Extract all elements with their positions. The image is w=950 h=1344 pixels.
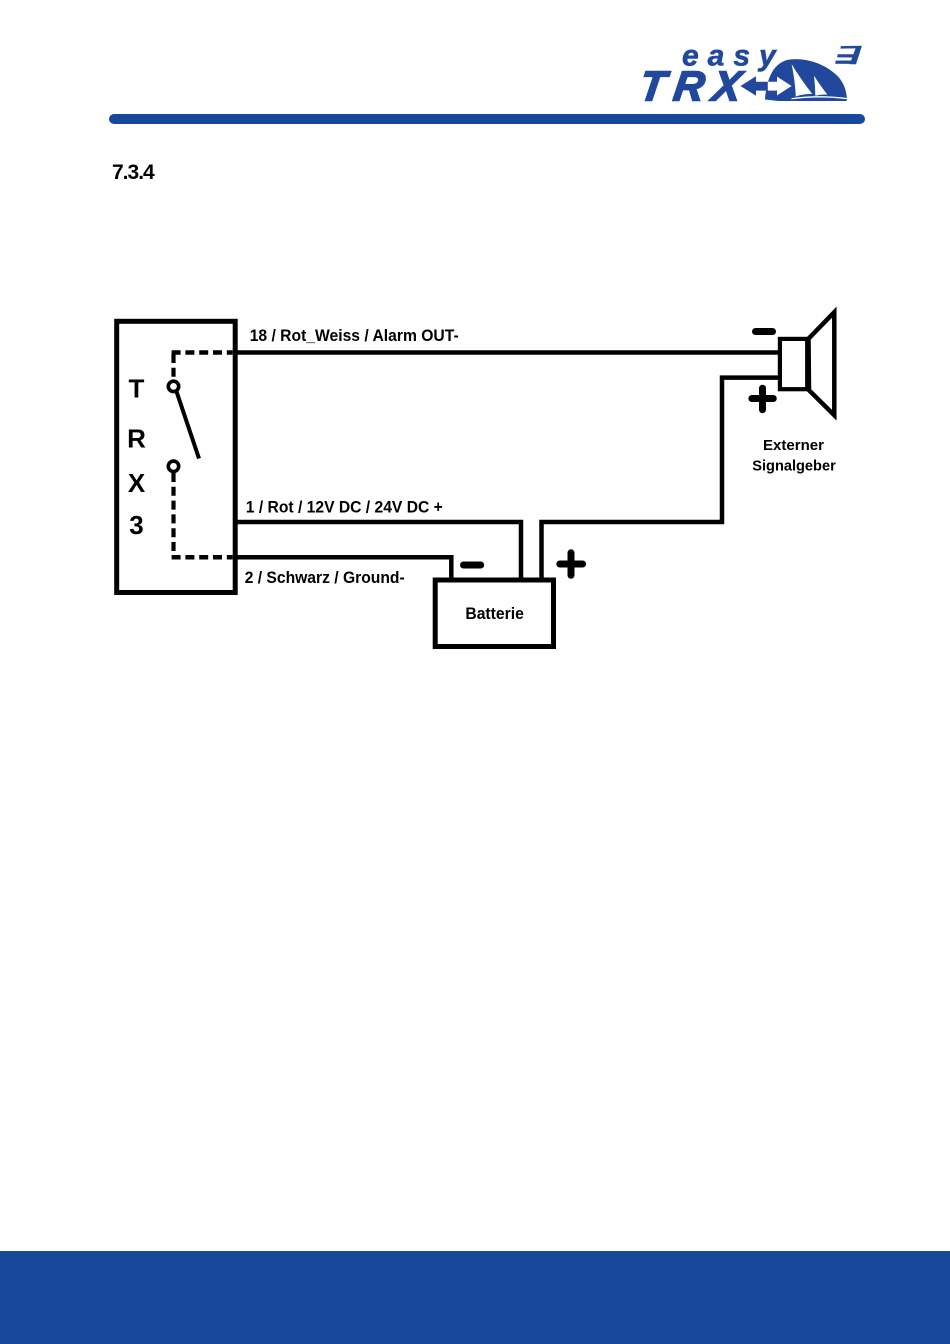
svg-text:R: R — [127, 423, 146, 453]
battery B1 — [435, 580, 553, 647]
logo left blue arrow — [741, 76, 769, 95]
battery minus sign — [464, 562, 481, 569]
relay dashed outline left upper — [171, 354, 175, 380]
svg-text:Signalgeber: Signalgeber — [752, 458, 836, 475]
logo water line (white) — [792, 96, 847, 99]
wire pin18 alarm out to speaker minus — [234, 350, 779, 355]
header rule — [109, 114, 865, 124]
relay dashed outline bottom — [172, 555, 233, 560]
switch blade — [177, 392, 200, 459]
svg-text:X: X — [128, 468, 146, 498]
svg-text:T: T — [129, 373, 145, 403]
logo sail dome with hull — [765, 59, 847, 101]
footer bar — [0, 1251, 950, 1344]
wire battery plus to speaker plus — [542, 378, 779, 580]
speaker plus sign — [752, 388, 773, 410]
svg-text:1 / Rot / 12V DC / 24V DC +: 1 / Rot / 12V DC / 24V DC + — [246, 499, 443, 517]
logo 3 superscript — [835, 46, 862, 64]
switch contact top — [168, 381, 178, 391]
TRX3 device box — [117, 321, 236, 592]
speaker LS1 (externer Signalgeber) — [780, 312, 834, 415]
logo sail 2 (white) — [814, 76, 827, 96]
svg-text:18 / Rot_Weiss / Alarm OUT-: 18 / Rot_Weiss / Alarm OUT- — [250, 327, 459, 345]
svg-text:Externer: Externer — [763, 437, 824, 454]
speaker caption — [752, 437, 836, 475]
easyTRX3 logo — [640, 30, 880, 115]
logo right white arrow — [768, 77, 792, 96]
wire pin2 ground to battery minus — [234, 557, 451, 580]
svg-text:Batterie: Batterie — [465, 604, 524, 623]
speaker minus sign — [756, 328, 773, 335]
logo sail 1 (white) — [792, 64, 813, 97]
wiring diagram — [0, 0, 950, 700]
section number 7.3.4 — [112, 162, 154, 183]
svg-text:3: 3 — [129, 510, 143, 540]
battery plus sign — [560, 553, 583, 576]
relay dashed outline left lower — [171, 473, 175, 556]
relay dashed outline top — [172, 350, 233, 355]
switch contact bottom — [168, 461, 178, 471]
svg-text:2 / Schwarz / Ground-: 2 / Schwarz / Ground- — [245, 569, 405, 587]
wire pin1 12V to battery plus — [234, 522, 521, 580]
